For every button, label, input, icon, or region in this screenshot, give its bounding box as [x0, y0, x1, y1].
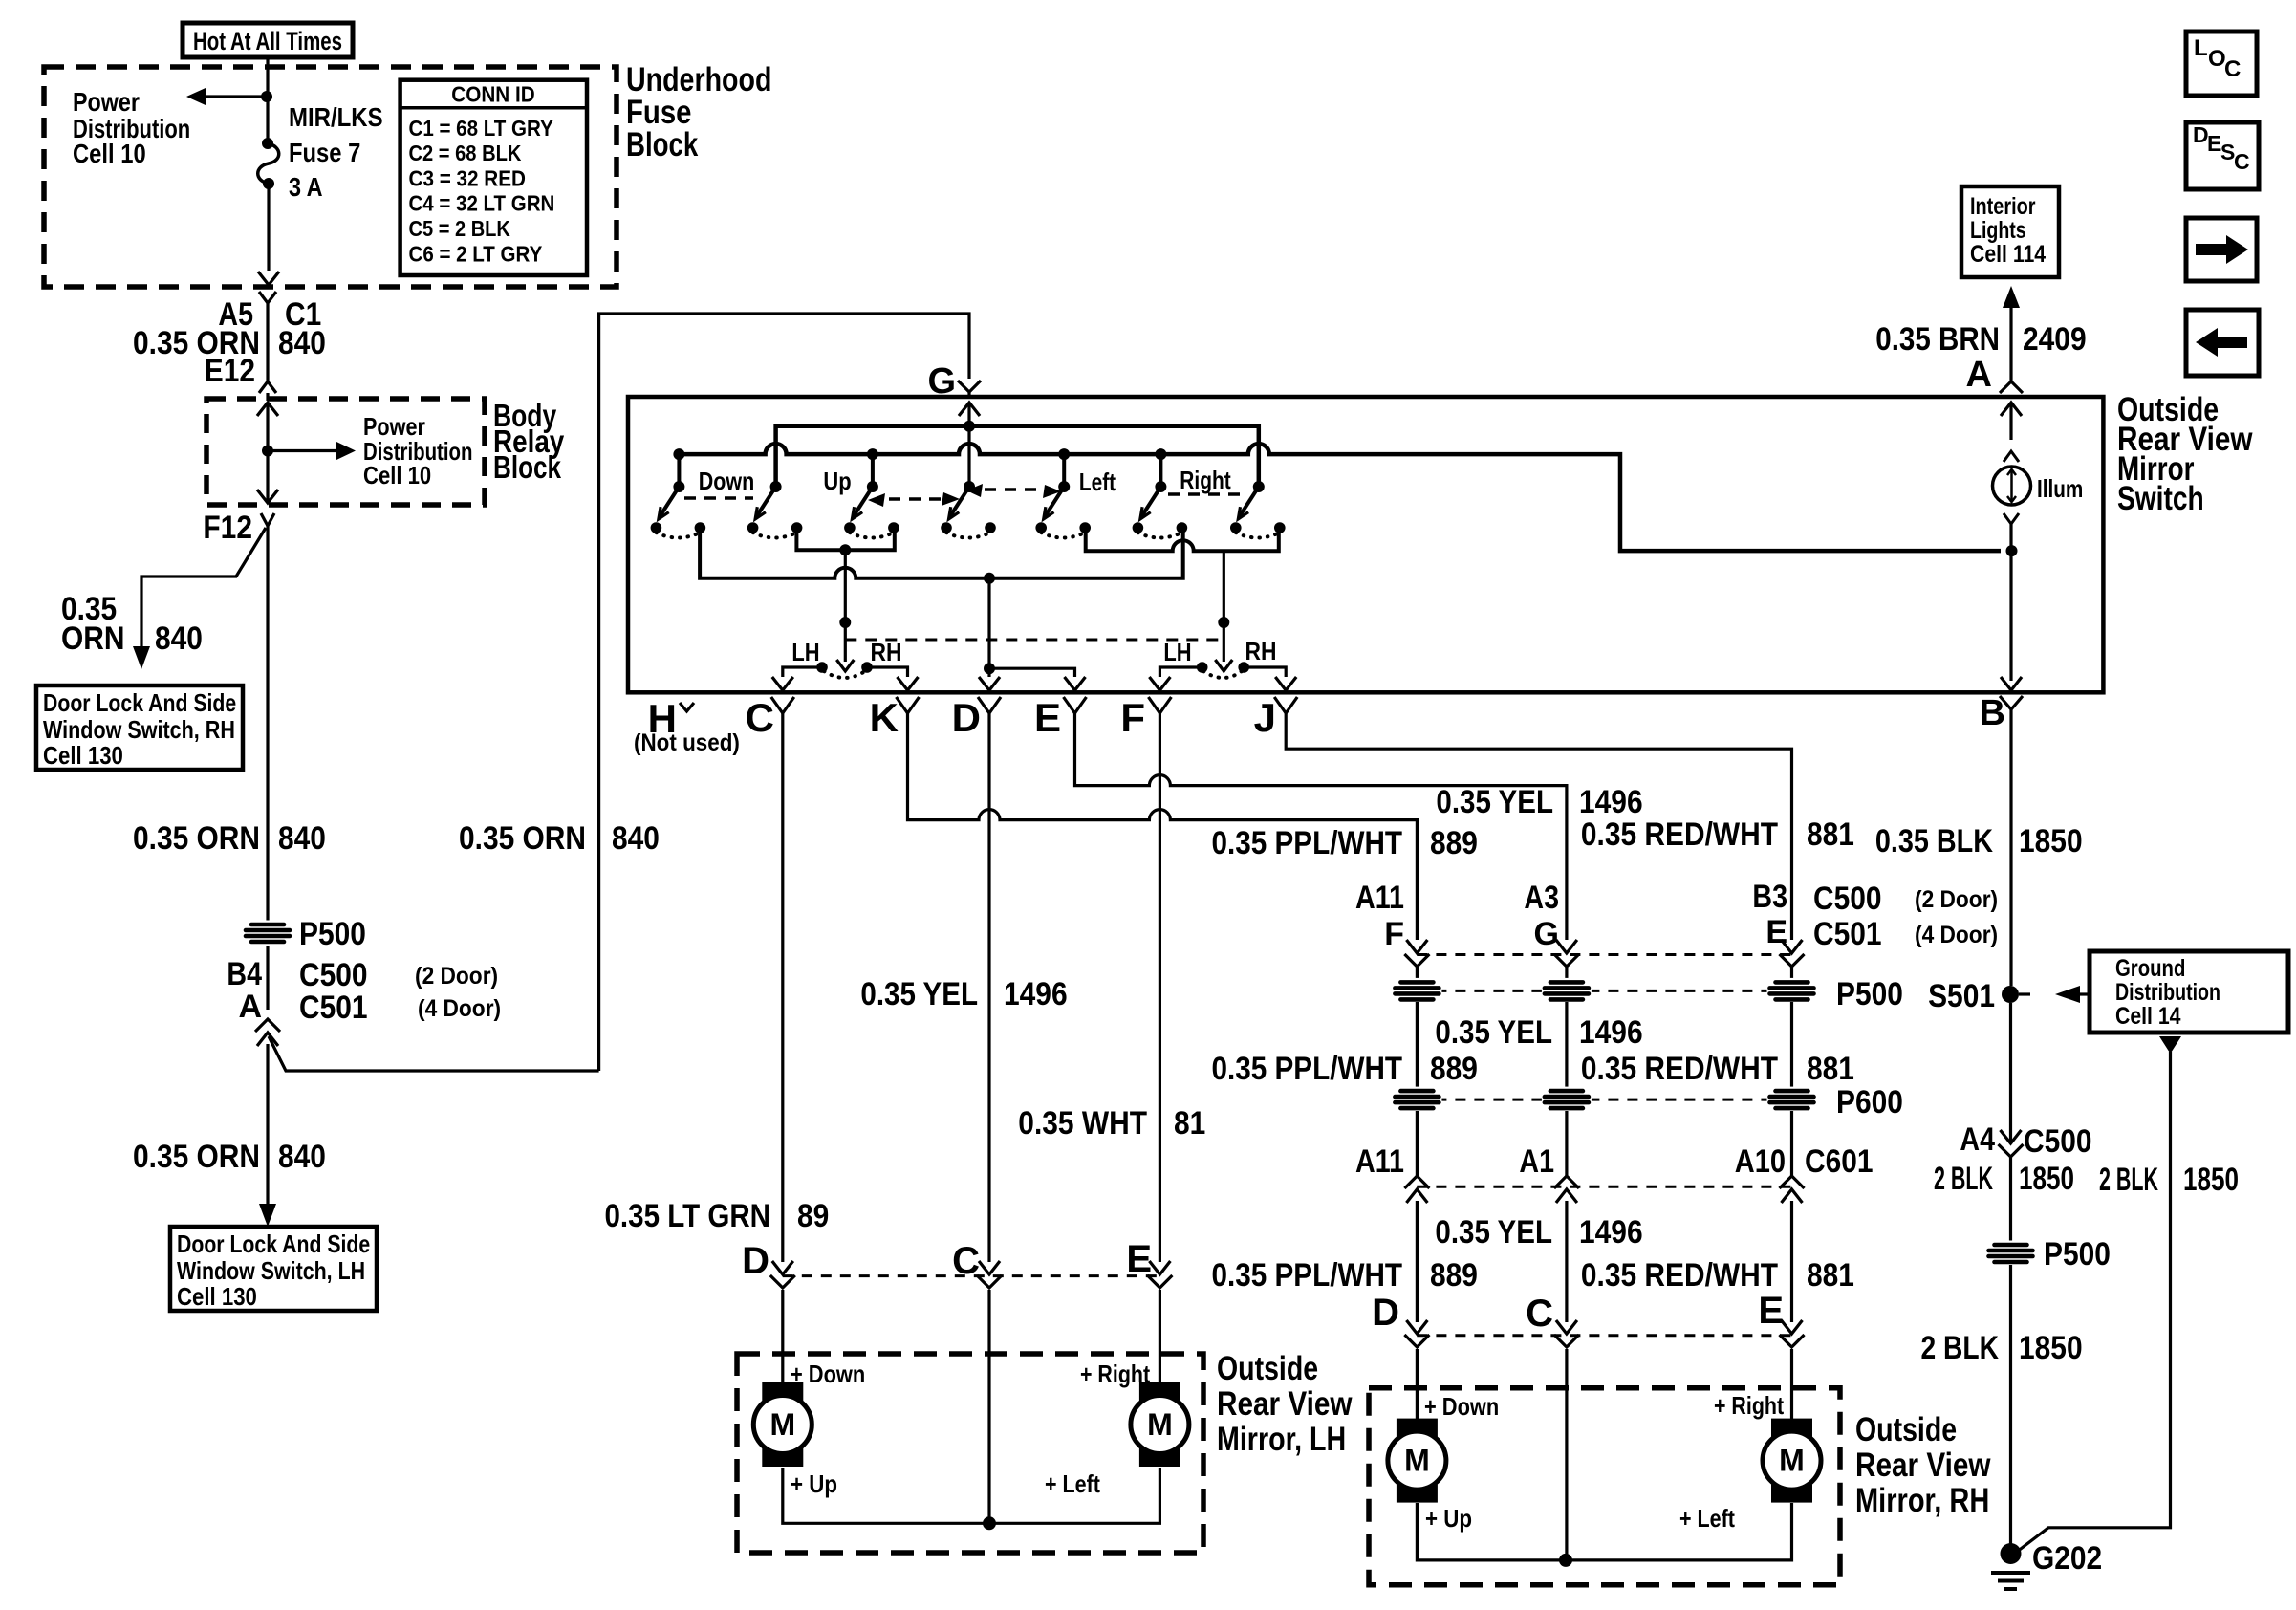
wire 0.35 BRN 2409 to Interior Lights — [2003, 286, 2020, 381]
svg-text:RH: RH — [1245, 637, 1277, 665]
svg-text:0.35 PPL/WHT: 0.35 PPL/WHT — [1212, 1257, 1403, 1294]
wire branch to Door Lock RH — [133, 528, 266, 669]
terminal A connector — [1966, 355, 2023, 395]
svg-text:M: M — [1779, 1444, 1805, 1478]
svg-text:C501: C501 — [299, 990, 368, 1026]
label 2 BLK 1850 (ground distribution wire) — [2099, 1162, 2239, 1198]
mechanical link dashes Up-G with arrows — [889, 497, 942, 500]
label 0.35 BLK 1850 — [1875, 823, 2083, 859]
label 2 BLK 1850 (upper) — [1934, 1161, 2074, 1197]
svg-text:A3: A3 — [1524, 880, 1559, 916]
Body Relay Block dashed box — [206, 399, 485, 505]
RH mirror common wire — [1565, 1349, 1568, 1560]
label 0.35 YEL 1496 — [860, 976, 1067, 1012]
fuse MIR/LKS Fuse 7 3A — [258, 138, 279, 189]
svg-text:A11: A11 — [1355, 1143, 1404, 1180]
grommet P500 col2 — [1542, 978, 1592, 1004]
ground G202 — [1991, 1540, 2102, 1589]
svg-text:M: M — [1147, 1407, 1173, 1442]
LH mirror connector terminal at x=1213.4 — [1149, 1261, 1170, 1274]
svg-text:0.35 ORN: 0.35 ORN — [459, 820, 586, 857]
svg-text:S501: S501 — [1928, 978, 1995, 1014]
switch arm Up — [844, 481, 899, 538]
svg-text:C: C — [2224, 56, 2241, 82]
connector C601 dashed line — [1417, 1186, 1791, 1188]
svg-text:Door Lock And Side: Door Lock And Side — [177, 1229, 370, 1258]
svg-text:840: 840 — [278, 820, 326, 857]
svg-text:C601: C601 — [1805, 1143, 1874, 1180]
svg-text:+ Up: + Up — [1425, 1504, 1472, 1533]
svg-text:C500: C500 — [1813, 881, 1882, 917]
wire from Hot At All Times into fuse — [266, 57, 269, 141]
svg-text:0.35 BRN: 0.35 BRN — [1875, 321, 2000, 358]
label 0.35 YEL 1496 (col2 low) — [1435, 1214, 1642, 1251]
fuse label MIR/LKS Fuse 7 3 A — [289, 102, 383, 202]
Outside Rear View Mirror LH caption — [1217, 1350, 1353, 1458]
grommet P500 row dashed — [1417, 990, 1791, 992]
switch arm LH/RH select A — [747, 481, 803, 538]
svg-text:1496: 1496 — [1579, 784, 1643, 820]
svg-text:840: 840 — [278, 1139, 326, 1175]
svg-text:881: 881 — [1807, 1051, 1854, 1087]
LH motor common bus — [783, 1468, 1160, 1530]
svg-text:F12: F12 — [203, 510, 252, 546]
svg-text:Rear View: Rear View — [1855, 1447, 1991, 1484]
wire 2 BLK 1850 below S501 — [2009, 1003, 2012, 1143]
wire from fuse to fuse block exit — [258, 184, 279, 285]
svg-text:Ground: Ground — [2115, 955, 2185, 982]
wire E to column 2 (0.35 YEL 1496) — [1075, 713, 1567, 940]
RH mirror connector terminal at x=1638.9 — [1556, 1320, 1577, 1334]
wire 0.35 BLK 1850 from B — [2009, 709, 2012, 986]
svg-text:+ Right: + Right — [1714, 1391, 1784, 1420]
svg-text:Up: Up — [823, 467, 851, 495]
RH motor common bus — [1417, 1503, 1791, 1567]
svg-text:2 BLK: 2 BLK — [2099, 1162, 2158, 1198]
svg-text:A11: A11 — [1355, 880, 1404, 916]
selector bus B — [700, 532, 1183, 584]
Outside Rear View Mirror Switch box — [628, 397, 2103, 692]
wire F to LH mirror 0.35 WHT 81 — [1159, 713, 1161, 1262]
svg-text:F: F — [1384, 916, 1404, 952]
svg-text:M: M — [769, 1407, 795, 1442]
Underhood Fuse Block caption — [626, 61, 771, 163]
connector C500/C501 pin A — [255, 1019, 280, 1032]
wire J to column 3 (0.35 RED/WHT 881) — [1286, 713, 1791, 940]
LOC legend box — [2186, 32, 2257, 96]
label 2 BLK 1850 (lower) — [1921, 1330, 2083, 1366]
label 0.35 ORN 840 (branch) — [61, 591, 203, 657]
CONN ID table — [401, 80, 587, 275]
svg-text:P500: P500 — [1836, 976, 1903, 1012]
svg-text:C5 = 2 BLK: C5 = 2 BLK — [409, 216, 511, 241]
svg-text:K: K — [870, 695, 899, 740]
svg-text:0.35 ORN: 0.35 ORN — [133, 1139, 260, 1175]
svg-text:0.35 LT GRN: 0.35 LT GRN — [605, 1198, 771, 1234]
svg-text:+ Left: + Left — [1045, 1469, 1100, 1498]
svg-text:Hot At All Times: Hot At All Times — [193, 27, 342, 55]
connector C601 terminal at x=1638.9 — [1554, 1176, 1579, 1188]
svg-text:Cell 14: Cell 14 — [2115, 1003, 2181, 1030]
svg-text:G202: G202 — [2032, 1540, 2102, 1577]
grommet P500 col1 — [1392, 978, 1441, 1004]
svg-text:(4 Door): (4 Door) — [1915, 922, 1998, 948]
svg-text:B: B — [1980, 693, 2005, 733]
svg-text:J: J — [1254, 695, 1276, 740]
label 0.35 YEL 1496 (col2 top) — [1436, 784, 1642, 820]
wire into LH left/right motor — [1159, 1290, 1161, 1382]
svg-text:LH: LH — [791, 638, 819, 666]
svg-text:+ Left: + Left — [1679, 1504, 1735, 1533]
connector terminal G — [927, 361, 981, 402]
switch arm common G — [941, 481, 996, 538]
connector C500/C501 terminal at x=1482.4 — [1406, 940, 1427, 953]
terminal E — [1034, 695, 1087, 740]
connector C500/C501 row labels — [1355, 879, 1998, 952]
label 0.35 RED/WHT 881 (col3 top) — [1581, 816, 1854, 853]
svg-text:Window Switch, LH: Window Switch, LH — [177, 1256, 365, 1285]
svg-text:F: F — [1120, 695, 1145, 740]
switch common rail to Illum junction — [679, 444, 2001, 551]
svg-text:Outside: Outside — [1217, 1350, 1318, 1387]
G wire arrow into box — [959, 402, 980, 487]
mechanical link dashes G-Left with arrows — [985, 488, 1038, 490]
terminal F — [1120, 695, 1171, 740]
wire to Power Distribution — [186, 88, 272, 105]
svg-text:2 BLK: 2 BLK — [1921, 1330, 2000, 1366]
Power Distribution Cell 10 text — [363, 412, 472, 490]
pivot stubs Down/Up/Left/Right — [673, 448, 684, 487]
wire into RH up/down motor — [1416, 1349, 1419, 1419]
svg-text:0.35 ORN: 0.35 ORN — [133, 820, 260, 857]
label 0.35 RED/WHT 881 (col3 mid) — [1581, 1051, 1854, 1087]
label 0.35 ORN 840 — [133, 820, 326, 857]
svg-text:Mirror, LH: Mirror, LH — [1217, 1421, 1346, 1458]
svg-text:Cell 130: Cell 130 — [177, 1282, 257, 1311]
DESC legend box — [2186, 122, 2259, 189]
svg-text:Left: Left — [1079, 468, 1116, 496]
svg-text:1850: 1850 — [2019, 1330, 2083, 1366]
svg-text:B3: B3 — [1752, 879, 1787, 915]
grommet P600 row dashed — [1417, 1099, 1791, 1101]
terminal C — [746, 695, 794, 740]
svg-text:Cell 130: Cell 130 — [43, 741, 123, 770]
connector C1 pin A5/E12 — [259, 292, 276, 393]
grommet P500 col3 — [1767, 978, 1817, 1004]
wire column x=1482.4 segment — [1416, 1002, 1419, 1088]
LH up/down motor M — [753, 1382, 812, 1467]
label 0.35 RED/WHT 881 (col3 low) — [1581, 1257, 1854, 1294]
label 0.35 PPL/WHT 889 (col1 top) — [1212, 825, 1478, 861]
svg-text:Mirror, RH: Mirror, RH — [1855, 1482, 1989, 1519]
svg-text:0.35 RED/WHT: 0.35 RED/WHT — [1581, 816, 1778, 853]
svg-text:Door Lock And Side: Door Lock And Side — [43, 688, 236, 717]
label 0.35 BRN 2409 — [1875, 321, 2086, 358]
svg-text:0.35 PPL/WHT: 0.35 PPL/WHT — [1212, 825, 1403, 861]
svg-text:Cell 10: Cell 10 — [363, 461, 431, 490]
terminal H (not used) — [634, 696, 740, 756]
wire into LH up/down motor — [781, 1290, 784, 1382]
label 0.35 PPL/WHT 889 (col1 low) — [1212, 1257, 1478, 1294]
wire into Body Relay Block — [266, 393, 269, 401]
wire column x=1638.9 segment — [1565, 1002, 1568, 1088]
svg-text:3 A: 3 A — [289, 172, 323, 202]
grommet P600 col3 — [1767, 1087, 1817, 1113]
wire 0.35 ORN 840 to Door Lock LH — [259, 1044, 276, 1227]
svg-text:0.35 WHT: 0.35 WHT — [1018, 1105, 1147, 1142]
left LH/RH selector — [816, 550, 873, 678]
svg-text:C501: C501 — [1813, 916, 1882, 952]
svg-text:E: E — [1758, 1290, 1784, 1332]
svg-text:840: 840 — [612, 820, 660, 857]
svg-text:1850: 1850 — [2019, 823, 2083, 859]
svg-text:(2 Door): (2 Door) — [1915, 886, 1998, 913]
svg-text:D: D — [742, 1240, 769, 1282]
svg-text:0.35 BLK: 0.35 BLK — [1875, 823, 1993, 859]
connector C601 row labels — [1355, 1143, 1874, 1180]
svg-text:MIR/LKS: MIR/LKS — [289, 102, 383, 132]
svg-text:0.35 YEL: 0.35 YEL — [860, 976, 978, 1012]
svg-text:1496: 1496 — [1579, 1014, 1643, 1051]
connector C601 terminal at x=1482.4 — [1404, 1176, 1429, 1188]
wire to C500/C501 connector — [266, 946, 269, 1010]
svg-text:Cell 10: Cell 10 — [73, 139, 146, 168]
svg-text:889: 889 — [1430, 825, 1478, 861]
right LH/RH selector — [1197, 551, 1249, 678]
label 0.35 ORN 840 (feed) — [459, 820, 660, 857]
svg-text:Fuse 7: Fuse 7 — [289, 138, 360, 167]
svg-text:(4 Door): (4 Door) — [418, 995, 501, 1022]
label B4 C500 (2 Door) / A C501 (4 Door) — [227, 956, 501, 1026]
LH mirror common wire — [987, 1290, 990, 1523]
switch position labels — [699, 466, 1231, 496]
label 0.35 ORN 840 (lower) — [133, 1139, 326, 1175]
svg-text:881: 881 — [1807, 1257, 1854, 1294]
svg-text:L: L — [2194, 35, 2208, 61]
Illum bulb branch — [1993, 402, 2031, 690]
svg-text:+ Up: + Up — [791, 1469, 837, 1498]
svg-text:Window Switch, RH: Window Switch, RH — [43, 715, 235, 744]
wire 0.35 ORN 840 main — [266, 526, 269, 921]
connector F12 — [203, 510, 274, 546]
RH mirror connector terminal at x=1482.4 — [1406, 1320, 1427, 1334]
grommet P500 (BLK wire) — [1986, 1241, 2036, 1267]
RH left/right motor M — [1763, 1419, 1821, 1503]
svg-text:B4: B4 — [227, 956, 262, 992]
svg-text:Lights: Lights — [1970, 217, 2026, 244]
svg-text:A: A — [1966, 355, 1992, 395]
splice S501 — [1928, 978, 2090, 1014]
grommet P600 col1 — [1392, 1087, 1441, 1113]
svg-text:A: A — [238, 989, 262, 1025]
svg-text:G: G — [1534, 916, 1559, 952]
svg-text:881: 881 — [1807, 816, 1854, 853]
svg-text:RH: RH — [871, 638, 902, 666]
svg-text:P500: P500 — [299, 916, 366, 952]
connector C500/C501 terminal at x=1638.9 — [1556, 940, 1577, 953]
left-arrow legend box — [2186, 310, 2259, 376]
svg-text:Block: Block — [626, 126, 699, 163]
wire inside body relay block — [257, 402, 278, 503]
svg-text:ORN: ORN — [61, 620, 125, 657]
connector C500 pin A4 — [1960, 1121, 2091, 1160]
LH mirror connector row letters D C E — [742, 1238, 1152, 1282]
wire to terminal E — [989, 668, 1086, 690]
switch arm Left — [1035, 481, 1091, 538]
svg-text:C1 = 68 LT GRY: C1 = 68 LT GRY — [409, 116, 553, 141]
wire column x=1874.5 segment — [1790, 1002, 1793, 1088]
svg-text:0.35 YEL: 0.35 YEL — [1435, 1014, 1552, 1051]
svg-text:C4 = 32 LT GRN: C4 = 32 LT GRN — [409, 191, 555, 216]
svg-text:C: C — [2234, 149, 2250, 174]
svg-text:+ Down: + Down — [1424, 1392, 1499, 1421]
terminal K — [870, 695, 920, 740]
RH up/down motor M — [1388, 1419, 1446, 1503]
Outside Rear View Mirror RH dashed box — [1369, 1388, 1840, 1585]
svg-text:889: 889 — [1430, 1257, 1478, 1294]
svg-text:A1: A1 — [1519, 1143, 1554, 1180]
selector bus C — [1086, 532, 1279, 551]
svg-text:81: 81 — [1174, 1105, 1205, 1142]
grommet P600 col2 — [1542, 1087, 1592, 1113]
svg-text:P600: P600 — [1836, 1084, 1903, 1120]
switch arm Down — [651, 481, 706, 538]
svg-text:Interior: Interior — [1970, 193, 2036, 220]
wire ORN 840 feed up to switch G — [599, 314, 969, 1071]
Power Distribution Cell 10 reference — [73, 87, 190, 168]
switch inner top rail — [776, 426, 1259, 487]
terminal D — [952, 695, 1001, 740]
svg-text:A10: A10 — [1735, 1143, 1786, 1180]
svg-text:Distribution: Distribution — [2115, 979, 2220, 1006]
svg-text:Power: Power — [73, 87, 140, 117]
label 0.35 WHT 81 — [1018, 1105, 1205, 1142]
Ground Distribution Cell 14 box — [2090, 951, 2288, 1033]
label box "Hot At All Times" — [183, 23, 353, 57]
svg-text:0.35 PPL/WHT: 0.35 PPL/WHT — [1212, 1051, 1403, 1087]
wire G into switch — [967, 392, 970, 399]
selector bus A — [796, 532, 894, 555]
svg-text:Down: Down — [699, 467, 755, 495]
svg-text:Outside: Outside — [1855, 1411, 1957, 1448]
terminal B connector — [1980, 693, 2023, 733]
svg-text:E: E — [1126, 1238, 1152, 1280]
svg-text:0.35 RED/WHT: 0.35 RED/WHT — [1581, 1051, 1778, 1087]
svg-text:+ Down: + Down — [791, 1360, 865, 1388]
svg-text:0.35 YEL: 0.35 YEL — [1436, 784, 1553, 820]
Door Lock And Side Window Switch LH box — [170, 1227, 377, 1311]
LH RH labels (right selector) — [1163, 637, 1276, 666]
LH mirror connector dashed line — [783, 1274, 1162, 1277]
svg-text:2 BLK: 2 BLK — [1934, 1161, 1993, 1197]
svg-text:C3 = 32 RED: C3 = 32 RED — [409, 166, 527, 191]
LH mirror connector terminal at x=818.8 — [772, 1261, 793, 1274]
connector C500/C501 terminal at x=1874.5 — [1782, 940, 1803, 953]
wire to terminal C — [772, 667, 822, 690]
label 0.35 YEL 1496 (col2 mid) — [1435, 1014, 1642, 1051]
svg-text:Rear View: Rear View — [1217, 1385, 1353, 1423]
wire to P500 grommet — [2009, 1157, 2012, 1242]
mechanical link dashes Right-B — [1168, 492, 1241, 495]
Outside Rear View Mirror LH dashed box — [737, 1354, 1203, 1553]
Body Relay Block caption — [493, 398, 565, 485]
wire to terminal D — [979, 578, 1000, 690]
svg-text:(Not used): (Not used) — [634, 729, 740, 756]
RH mirror connector terminal at x=1874.5 — [1782, 1320, 1803, 1334]
wire into RH left/right motor — [1790, 1349, 1793, 1419]
wire 2 BLK 1850 to G202 — [2009, 1265, 2012, 1549]
svg-text:1496: 1496 — [1579, 1214, 1643, 1251]
svg-text:E: E — [1034, 695, 1061, 740]
svg-text:Cell 114: Cell 114 — [1970, 241, 2046, 268]
svg-text:O: O — [2208, 46, 2226, 72]
svg-text:Right: Right — [1180, 466, 1231, 494]
RH mirror connector row letters D C E — [1372, 1290, 1784, 1335]
Outside Rear View Mirror Switch caption — [2117, 391, 2253, 517]
LH RH labels (left selector) — [791, 638, 901, 666]
label 0.35 LT GRN 89 — [605, 1198, 830, 1234]
wire D to LH mirror 0.35 YEL 1496 — [987, 713, 990, 1262]
mechanical link dashes Down-A — [684, 496, 753, 499]
svg-text:840: 840 — [155, 620, 203, 657]
wire column x=1638.9 to C601 — [1565, 1111, 1568, 1176]
svg-text:P500: P500 — [2044, 1236, 2111, 1273]
svg-text:89: 89 — [797, 1198, 829, 1234]
svg-text:2409: 2409 — [2023, 321, 2087, 358]
svg-text:0.35 RED/WHT: 0.35 RED/WHT — [1581, 1257, 1778, 1294]
wire C to LH mirror 0.35 LT GRN 89 — [781, 713, 784, 1262]
svg-text:C500: C500 — [299, 957, 368, 993]
wire to terminal K — [867, 667, 919, 690]
svg-text:0.35 YEL: 0.35 YEL — [1435, 1214, 1552, 1251]
switch arm LH/RH select B — [1230, 481, 1286, 538]
svg-text:C: C — [746, 695, 774, 740]
switch arm Right — [1133, 481, 1188, 538]
svg-text:889: 889 — [1430, 1051, 1478, 1087]
Outside Rear View Mirror RH caption — [1855, 1411, 1991, 1519]
wire column x=1482.4 to C601 — [1416, 1111, 1419, 1176]
arrow to Power Distribution Cell 10 — [268, 442, 356, 460]
svg-text:Illum: Illum — [2037, 474, 2083, 503]
RH mirror connector dashed line — [1417, 1334, 1791, 1337]
svg-text:C6 = 2 LT GRY: C6 = 2 LT GRY — [409, 242, 543, 267]
svg-text:Block: Block — [493, 449, 562, 485]
wire column x=1874.5 to C601 — [1790, 1111, 1793, 1176]
wire to terminal J — [1244, 667, 1296, 690]
ground distribution drop wire — [2017, 1036, 2181, 1552]
svg-text:C500: C500 — [2024, 1123, 2092, 1160]
branch wire to switch feed — [269, 1036, 599, 1071]
Interior Lights Cell 114 box — [1961, 186, 2059, 277]
svg-text:(2 Door): (2 Door) — [415, 963, 498, 990]
svg-text:+ Right: + Right — [1080, 1360, 1150, 1388]
label 0.35 PPL/WHT 889 (col1 mid) — [1212, 1051, 1478, 1087]
svg-text:A4: A4 — [1960, 1121, 1995, 1158]
selector mech dashed link — [845, 639, 1224, 642]
wire to terminal F — [1149, 667, 1202, 690]
svg-text:D: D — [1372, 1292, 1399, 1334]
LH mirror connector terminal at x=1035 — [979, 1261, 1000, 1274]
Door Lock And Side Window Switch RH box — [36, 685, 243, 770]
svg-text:D: D — [952, 695, 981, 740]
terminal J — [1254, 695, 1298, 740]
grommet P500 (left) — [243, 921, 292, 946]
svg-text:840: 840 — [278, 325, 326, 361]
svg-text:Switch: Switch — [2117, 480, 2204, 517]
LH left/right motor M — [1131, 1382, 1189, 1467]
svg-text:CONN ID: CONN ID — [451, 82, 534, 107]
svg-text:E12: E12 — [205, 353, 255, 389]
